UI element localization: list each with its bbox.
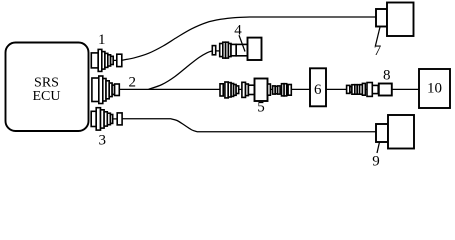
wire: component4 lead xyxy=(212,50,215,52)
wire: component5 to box6 xyxy=(291,88,310,90)
wire: connector1 to top run xyxy=(122,17,377,60)
box 6 xyxy=(310,68,326,106)
svg-text:1: 1 xyxy=(98,32,106,48)
connector 2 on SRS ECU xyxy=(92,76,119,104)
svg-text:8: 8 xyxy=(383,68,391,84)
label 9 leader line xyxy=(377,142,380,153)
svg-text:ECU: ECU xyxy=(33,89,61,104)
box 7 assembly: small connector rect xyxy=(376,9,387,27)
SRS ECU box xyxy=(6,43,89,132)
wire: middle run connector2 to component5 xyxy=(119,88,220,90)
wire: connector8 to box10 xyxy=(392,88,419,90)
component 4 (sensor with connector and body) xyxy=(212,38,261,60)
wire: branch from middle run up to component 4 xyxy=(149,51,213,89)
svg-text:10: 10 xyxy=(427,80,442,96)
component 5 (inline connector pair) xyxy=(220,79,291,102)
svg-text:7: 7 xyxy=(374,43,382,59)
svg-text:9: 9 xyxy=(372,154,380,167)
wire: box6 to connector8 xyxy=(326,88,347,90)
svg-text:6: 6 xyxy=(314,82,322,98)
svg-text:2: 2 xyxy=(128,75,136,91)
connector 1 on SRS ECU xyxy=(91,49,122,71)
box 10 xyxy=(419,69,450,108)
svg-text:4: 4 xyxy=(234,23,242,39)
connector 3 on SRS ECU xyxy=(91,108,122,130)
label 7 leader line xyxy=(376,27,381,46)
svg-text:3: 3 xyxy=(98,132,106,148)
svg-text:5: 5 xyxy=(257,100,265,116)
wire: connector3 horizontal then S-down to bottom run xyxy=(122,119,376,132)
box 9 assembly: small connector rect xyxy=(376,124,388,142)
box 7 body xyxy=(387,3,414,37)
connector 8 (plug into box 10 harness) xyxy=(347,83,392,97)
label 4 leader line xyxy=(239,35,245,51)
box 9 body xyxy=(388,115,414,149)
